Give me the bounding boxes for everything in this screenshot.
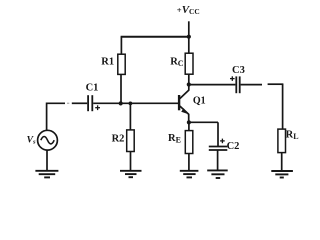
wire RE bottom lead <box>188 154 190 171</box>
wire R2 bottom lead <box>130 152 132 171</box>
wire RC top lead <box>188 37 190 54</box>
svg-text:Q1: Q1 <box>193 96 206 107</box>
capacitor C1 <box>88 95 92 111</box>
label +VCC power net <box>177 4 200 16</box>
wire RL bottom lead <box>281 153 283 171</box>
wire top supply rail <box>121 36 191 38</box>
resistor RE <box>185 131 193 154</box>
source VS <box>38 130 58 150</box>
label C1 <box>86 82 99 93</box>
wire C2 top lead <box>217 122 219 146</box>
ground below RE <box>180 171 199 178</box>
capacitor C2 <box>209 147 228 151</box>
svg-text:R2: R2 <box>112 134 125 145</box>
transistor Q1 <box>179 90 189 122</box>
label C2 <box>227 141 240 152</box>
wire C2 bottom lead <box>217 150 219 170</box>
svg-text:R1: R1 <box>101 57 114 68</box>
resistor R2 <box>127 130 135 152</box>
label C3 polarity + <box>230 76 235 81</box>
label RC <box>170 56 184 67</box>
node VCC rail junction <box>187 35 191 39</box>
wire RL top branch <box>282 84 284 129</box>
wire collector stub down <box>188 85 190 91</box>
node base R2 junction <box>129 102 133 106</box>
wire base net <box>93 102 179 104</box>
svg-text:C3: C3 <box>232 65 245 76</box>
label C3 <box>232 65 245 76</box>
wire VS bottom lead <box>46 150 48 170</box>
wire R2 top lead <box>129 103 131 129</box>
wire collector to C3 <box>189 84 236 86</box>
label C1 polarity + <box>95 105 100 110</box>
wire input segment from source corner <box>46 102 65 104</box>
ground below C2 <box>207 170 228 178</box>
ground below VS <box>35 171 58 178</box>
capacitor C3 <box>236 76 239 93</box>
wire input segment to C1 <box>72 102 87 104</box>
svg-text:RE: RE <box>168 133 181 144</box>
wire R1 top lead <box>120 37 122 55</box>
wire VCC stub <box>188 21 190 36</box>
resistor RL <box>278 129 286 153</box>
svg-text:C2: C2 <box>227 141 240 152</box>
node base R1 junction <box>119 101 123 105</box>
label R2 <box>112 134 125 145</box>
ground below RL <box>271 171 293 178</box>
svg-text:RL: RL <box>286 130 299 142</box>
label RE <box>168 133 181 144</box>
wire C3 output segment <box>241 84 262 86</box>
label RL <box>286 130 299 142</box>
label R1 <box>101 57 114 68</box>
ground below R2 <box>120 171 142 177</box>
label VS <box>27 134 36 145</box>
resistor R1 <box>118 54 125 74</box>
wire input corner vertical <box>46 103 48 131</box>
wire input segment faint remnant <box>67 102 69 104</box>
label Q1 <box>193 96 206 107</box>
wire R1 bottom lead <box>120 74 122 103</box>
wire emitter to C2 branch <box>189 121 218 123</box>
label C2 polarity + <box>220 139 225 144</box>
svg-text:C1: C1 <box>86 82 99 93</box>
node emitter junction <box>187 120 191 124</box>
wire RC bottom lead <box>188 74 190 84</box>
node collector junction <box>187 82 191 86</box>
wire output segment to corner <box>268 83 284 85</box>
wire RE top lead <box>188 122 190 130</box>
svg-text:RC: RC <box>170 56 184 67</box>
resistor RC <box>185 53 193 74</box>
